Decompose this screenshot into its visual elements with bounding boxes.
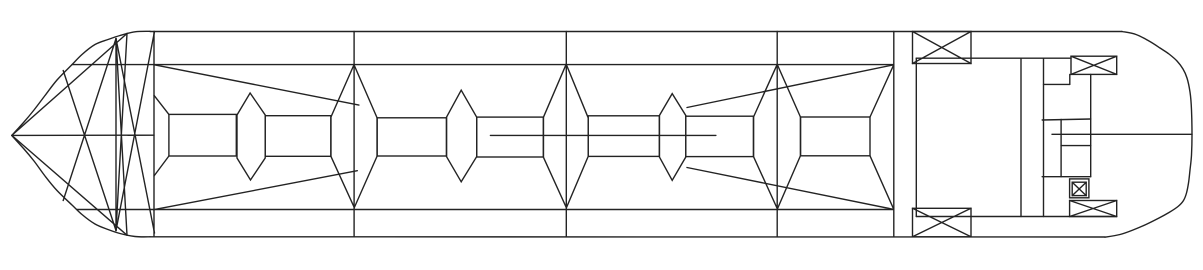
hold3 middle hexagon	[659, 94, 685, 181]
bulkhead4 hexagon	[754, 64, 801, 209]
small hatch box inner	[1072, 182, 1086, 195]
hold4 flare to bulkhead5 top	[870, 65, 894, 117]
deckhouse step top horizontal	[1044, 83, 1070, 85]
deckhouse top line	[916, 57, 1071, 59]
deckhouse inner vertical	[1090, 74, 1092, 176]
deckhouse vertical 2	[1043, 58, 1045, 216]
bow shoulder return lower	[116, 39, 127, 236]
inner deck line top	[72, 64, 894, 66]
bow steep brace 2	[116, 32, 155, 231]
winch box fwd bottom	[913, 208, 972, 237]
hold2 middle hexagon	[447, 90, 477, 182]
hull outline top edge	[150, 31, 1122, 33]
centerline bow	[12, 134, 154, 136]
bow vertical frame	[115, 39, 117, 231]
bulkhead3 hexagon	[543, 64, 588, 208]
hold1 hatch rect b	[265, 116, 331, 157]
funnel bottom line	[1061, 145, 1091, 147]
hold4 hatch rect	[801, 117, 871, 156]
bulkhead2 hexagon	[331, 65, 377, 208]
deckhouse step bottom horizontal	[1042, 176, 1091, 178]
hull outline bow lower curve	[12, 136, 150, 237]
hold3 hatch rect a	[588, 116, 659, 157]
hold2 hatch rect b	[477, 117, 544, 157]
poop front wall	[915, 58, 917, 216]
bulkhead 4	[776, 32, 778, 237]
small hatch box X	[1072, 182, 1086, 195]
winch box fwd top	[913, 32, 972, 64]
bulkhead 1	[153, 32, 155, 237]
hold1 hatch coaming flare top	[154, 95, 169, 114]
bow shoulder return upper	[116, 34, 127, 231]
bulkhead 3	[565, 32, 567, 237]
small hatch box outer	[1070, 179, 1089, 198]
hold4 long diagonal bottom	[687, 168, 894, 210]
winch box fwd bottom X	[913, 208, 972, 237]
hold1 hatch rect a	[169, 114, 236, 156]
bulkhead 5	[893, 32, 895, 237]
funnel left vertical	[1060, 120, 1062, 177]
hold1 hatch coaming flare bottom	[154, 156, 169, 176]
deckhouse bottom line	[916, 216, 1116, 218]
hold2 hatch rect a	[377, 118, 446, 156]
centerline stern	[1052, 133, 1192, 135]
hold1 long diagonal bottom	[154, 171, 358, 210]
bulkhead 2	[353, 32, 355, 237]
funnel top line	[1042, 119, 1091, 120]
bow steep brace 1	[116, 39, 155, 233]
bow brace diagonal 1	[63, 71, 116, 231]
winch box aft bottom X	[1070, 201, 1117, 217]
hull outline bottom edge	[150, 236, 1105, 238]
hold1 long diagonal top	[154, 65, 359, 105]
bow brace diagonal 2	[63, 39, 116, 201]
winch box aft top X	[1071, 56, 1117, 74]
deckhouse step top vertical	[1069, 74, 1071, 84]
hold3 hatch rect b	[686, 116, 754, 156]
winch box aft bottom	[1070, 201, 1117, 217]
hold4 long diagonal top	[687, 65, 894, 108]
winch box fwd top X	[913, 32, 972, 64]
winch box aft top	[1071, 56, 1117, 74]
hull outline bow upper curve	[12, 31, 150, 135]
hull outline stern curve	[1105, 32, 1192, 238]
bow chord lower	[12, 135, 127, 235]
inner deck line bottom	[77, 209, 894, 211]
hold4 flare to bulkhead5 bottom	[870, 156, 894, 210]
centerline midship	[490, 134, 716, 136]
bow chord upper	[12, 34, 127, 136]
deckhouse vertical 1	[1020, 58, 1022, 216]
hold1 middle hexagon	[237, 93, 265, 180]
